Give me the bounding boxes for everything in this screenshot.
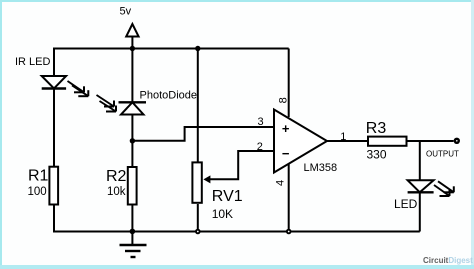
svg-text:LM358: LM358 (304, 162, 338, 174)
svg-text:−: − (282, 146, 290, 161)
svg-text:RV1: RV1 (212, 188, 243, 205)
svg-text:PhotoDiode: PhotoDiode (140, 90, 198, 102)
svg-text:4: 4 (275, 180, 287, 186)
svg-text:10K: 10K (212, 207, 233, 221)
svg-text:2: 2 (257, 141, 263, 153)
svg-text:330: 330 (367, 148, 387, 162)
svg-text:R2: R2 (106, 168, 127, 185)
svg-text:LED: LED (394, 197, 418, 211)
svg-text:OUTPUT: OUTPUT (426, 150, 459, 159)
svg-text:8: 8 (278, 97, 290, 103)
svg-text:+: + (282, 121, 290, 136)
svg-text:R3: R3 (366, 120, 387, 137)
svg-text:CircuitDigest: CircuitDigest (423, 256, 473, 265)
svg-text:IR LED: IR LED (15, 56, 51, 68)
svg-text:10k: 10k (107, 186, 126, 198)
svg-text:R1: R1 (28, 168, 49, 185)
svg-text:5v: 5v (120, 6, 132, 18)
svg-text:100: 100 (28, 186, 47, 198)
svg-text:1: 1 (340, 131, 346, 143)
svg-text:3: 3 (258, 116, 264, 128)
